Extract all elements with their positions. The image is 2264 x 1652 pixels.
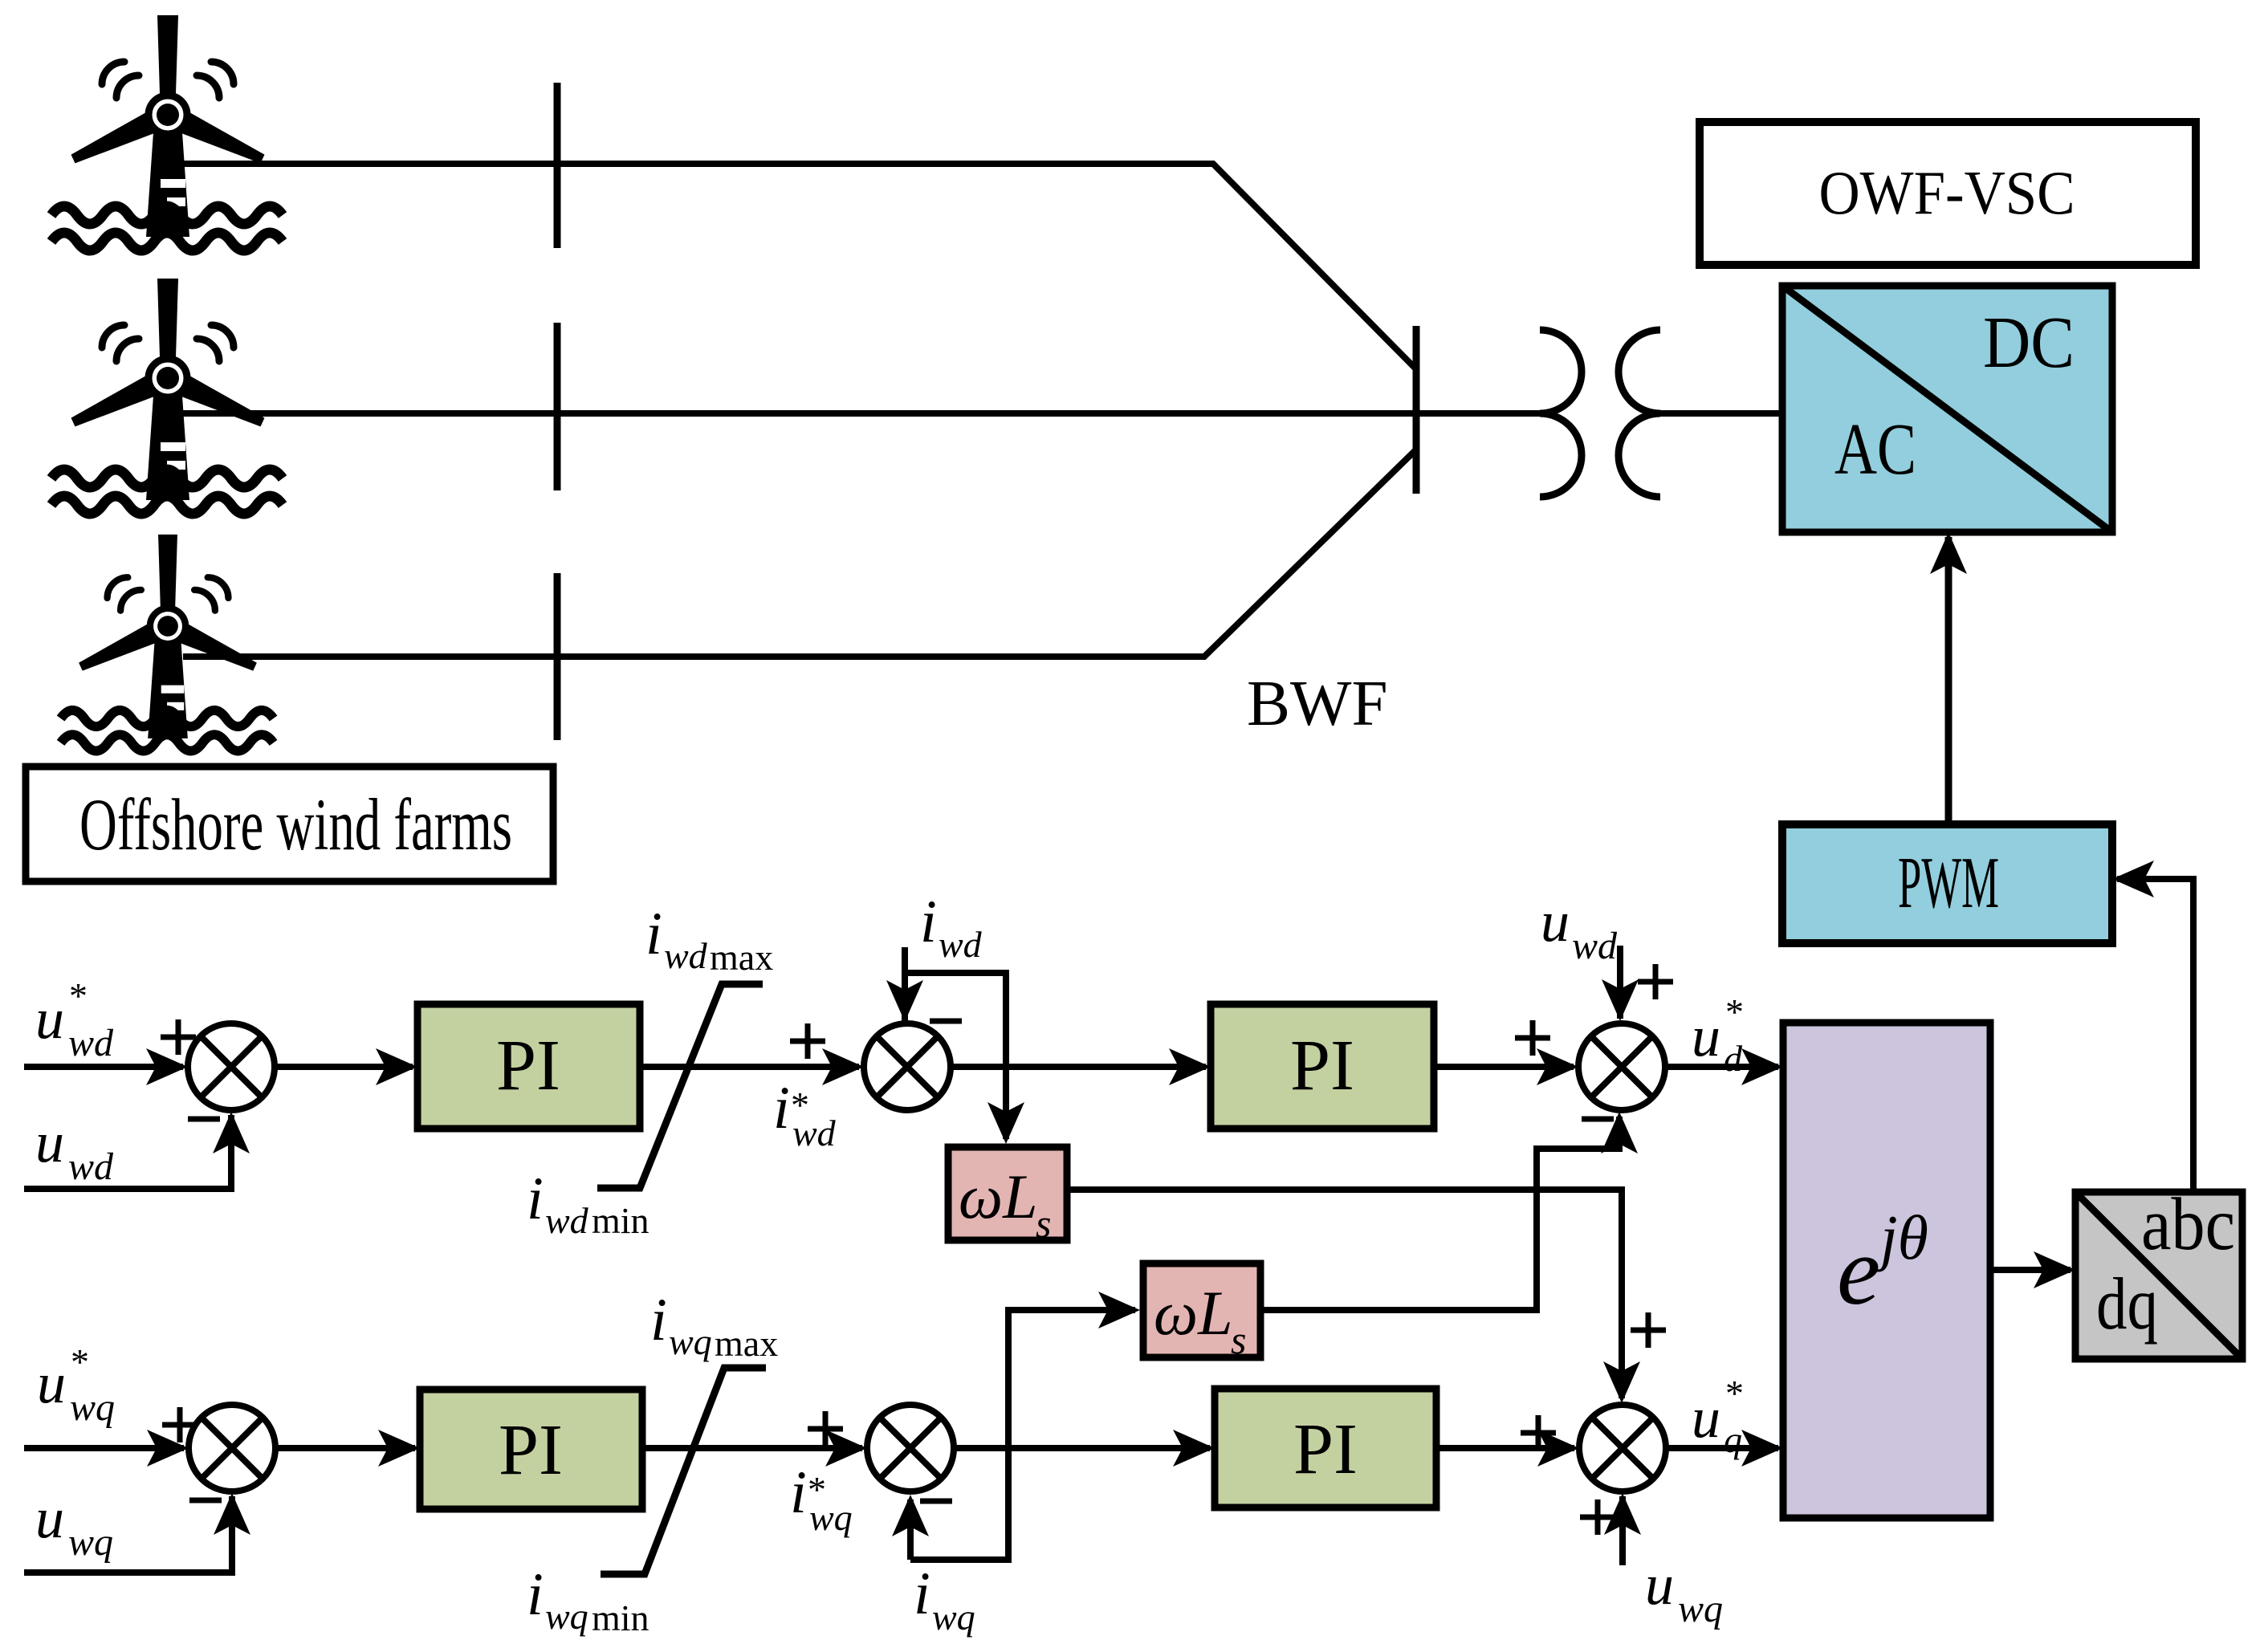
summing junction S1 — [188, 1023, 275, 1110]
summing junction S4 — [189, 1405, 275, 1491]
limiter 2 — [601, 1368, 766, 1574]
svg-text:BWF: BWF — [1247, 667, 1388, 739]
transformer secondary winding — [1619, 330, 1660, 497]
svg-text:q: q — [1724, 1419, 1742, 1460]
wire iwq into S5 — [907, 1499, 914, 1560]
svg-text:u: u — [35, 987, 64, 1051]
svg-text:wd: wd — [939, 924, 983, 965]
wire iwd branch to wLs1 — [905, 973, 1006, 1139]
plus at S3 top — [1638, 964, 1673, 999]
wire iwd into S2 — [902, 947, 908, 1023]
abc-dq block — [2075, 1183, 2242, 1359]
wire S2 to PI2 — [947, 1064, 1206, 1070]
label iwd — [920, 889, 983, 965]
label iwq — [914, 1560, 975, 1638]
svg-text:PI: PI — [496, 1026, 560, 1105]
svg-text:AC: AC — [1834, 409, 1916, 490]
svg-text:PI: PI — [1290, 1026, 1354, 1105]
svg-text:jθ: jθ — [1873, 1202, 1928, 1272]
wind turbine WT3 — [61, 535, 274, 751]
summing junction S6 — [1579, 1405, 1666, 1491]
svg-text:u: u — [35, 1110, 64, 1174]
minus at S4 — [189, 1498, 222, 1503]
wire uwq* input — [24, 1445, 184, 1451]
svg-text:i: i — [645, 901, 662, 967]
svg-text:Offshore wind farms: Offshore wind farms — [79, 783, 512, 865]
plus before S3 — [1515, 1020, 1550, 1056]
svg-text:*: * — [1725, 991, 1744, 1032]
bus tick 3 — [554, 573, 561, 740]
label uwd top — [1541, 889, 1618, 967]
plus before S6 — [1521, 1415, 1556, 1451]
label uwq — [35, 1486, 113, 1564]
svg-text:wq: wq — [669, 1321, 712, 1362]
svg-text:wq: wq — [545, 1596, 588, 1637]
wLs block 1 — [948, 1147, 1067, 1246]
svg-text:max: max — [715, 1323, 778, 1364]
summing junction S3 — [1578, 1023, 1665, 1110]
svg-text:min: min — [592, 1200, 649, 1241]
wire wLs2 to S3 — [1260, 1117, 1619, 1310]
svg-text:s: s — [1231, 1317, 1246, 1362]
minus at S2 — [930, 1019, 962, 1024]
label uwq bottom — [1645, 1552, 1723, 1630]
svg-text:wd: wd — [664, 935, 708, 976]
svg-text:*: * — [69, 975, 88, 1016]
svg-text:max: max — [710, 937, 773, 978]
svg-text:wd: wd — [68, 1145, 114, 1188]
svg-text:u: u — [37, 1351, 66, 1415]
wind turbine WT2 — [51, 279, 283, 514]
svg-text:i: i — [790, 1459, 807, 1526]
ejtheta block — [1783, 1023, 1990, 1518]
svg-text:wq: wq — [70, 1386, 115, 1429]
wire S6 to ejth — [1663, 1445, 1778, 1451]
wire uwd feedback — [24, 1115, 231, 1189]
converter diagonal — [1782, 286, 2112, 532]
svg-text:dq: dq — [2096, 1263, 2158, 1345]
svg-text:ωL: ωL — [1154, 1278, 1232, 1348]
AC-DC converter block — [1782, 286, 2112, 532]
label iwd min — [527, 1166, 649, 1241]
label u*wd — [35, 975, 114, 1064]
wLs block 2 — [1143, 1263, 1260, 1362]
svg-text:d: d — [1724, 1038, 1743, 1079]
transformer primary winding — [1540, 330, 1582, 497]
wire S5 to PI4 — [951, 1445, 1210, 1451]
wire uwd into S3 — [1617, 946, 1623, 1019]
svg-text:ωL: ωL — [959, 1162, 1037, 1231]
wire PI4 to S6 — [1436, 1445, 1574, 1451]
svg-text:PI: PI — [1293, 1410, 1358, 1489]
OWF-VSC box — [1700, 122, 2196, 265]
bus tick 2 — [554, 323, 561, 490]
wire PI1 to S2 — [640, 1064, 859, 1070]
PWM block — [1782, 824, 2112, 943]
BWF bus bar — [1413, 326, 1420, 494]
wire S4 to PI3 — [272, 1445, 415, 1451]
label i*wq — [790, 1459, 853, 1538]
svg-text:s: s — [1036, 1201, 1051, 1246]
label iwq max — [650, 1287, 778, 1364]
plus at S6 top — [1631, 1312, 1666, 1348]
svg-text:i: i — [773, 1075, 790, 1141]
wire abc-dq to PWM — [2117, 879, 2193, 1192]
label i*wd — [773, 1075, 837, 1154]
wire PWM to converter — [1945, 537, 1952, 824]
wind turbine WT1 — [51, 15, 283, 250]
minus at S5 — [920, 1499, 952, 1504]
PI block PI4 — [1215, 1389, 1436, 1508]
svg-text:*: * — [1725, 1373, 1744, 1414]
svg-text:i: i — [527, 1166, 544, 1232]
wire uwq into S6 — [1619, 1496, 1626, 1565]
svg-text:e: e — [1837, 1217, 1880, 1325]
wire wLs1 to S6 — [1067, 1190, 1622, 1398]
svg-text:OWF-VSC: OWF-VSC — [1819, 158, 2075, 227]
svg-text:wd: wd — [792, 1113, 837, 1154]
limiter 1 — [597, 984, 763, 1188]
wire transformer to AC-DC converter — [1660, 410, 1782, 417]
plus at S4 — [162, 1407, 197, 1442]
svg-text:u: u — [1692, 1385, 1720, 1450]
svg-text:wd: wd — [545, 1200, 589, 1241]
label uwd — [35, 1110, 114, 1188]
svg-text:abc: abc — [2141, 1183, 2235, 1266]
svg-text:i: i — [650, 1287, 667, 1353]
summing junction S2 — [864, 1023, 951, 1110]
svg-text:u: u — [1692, 1004, 1720, 1068]
minus at S3 bottom — [1582, 1117, 1614, 1122]
svg-text:*: * — [71, 1341, 89, 1382]
svg-text:wq: wq — [1678, 1588, 1723, 1630]
svg-text:i: i — [527, 1561, 544, 1628]
svg-text:wd: wd — [1572, 925, 1618, 967]
plus before S5 — [808, 1411, 843, 1447]
wire PI3 to S5 — [642, 1445, 862, 1451]
wire uwd* input — [24, 1064, 183, 1070]
label u*q — [1692, 1373, 1744, 1460]
wire PI2 to S3 — [1434, 1064, 1574, 1070]
wire ejth to abc-dq — [1990, 1267, 2071, 1273]
svg-text:u: u — [1541, 889, 1570, 954]
wire S3 to ejth — [1662, 1064, 1778, 1070]
bus tick 1 — [554, 83, 561, 248]
PI block PI3 — [420, 1390, 642, 1509]
svg-text:i: i — [914, 1560, 930, 1627]
svg-text:wq: wq — [932, 1597, 975, 1638]
svg-text:wq: wq — [68, 1521, 113, 1564]
label u*d — [1692, 991, 1744, 1079]
wire uwq feedback — [24, 1496, 232, 1573]
minus at S1 — [188, 1117, 220, 1122]
feeder wire 1 — [183, 164, 1416, 369]
svg-text:i: i — [920, 889, 937, 955]
svg-text:u: u — [1645, 1552, 1674, 1617]
label u*wq — [37, 1341, 115, 1429]
wire iwq branch to wLs2 — [910, 1310, 1135, 1560]
svg-text:u: u — [35, 1486, 64, 1550]
svg-text:DC: DC — [1983, 302, 2075, 383]
wire S1 to PI1 — [271, 1064, 413, 1070]
summing junction S5 — [867, 1405, 954, 1491]
feeder wire 3 — [183, 450, 1416, 657]
svg-text:wq: wq — [809, 1497, 853, 1538]
label iwd max — [645, 901, 773, 978]
label iwq min — [527, 1561, 649, 1638]
svg-text:wd: wd — [68, 1022, 114, 1064]
Offshore wind farms box — [26, 767, 553, 881]
svg-text:PI: PI — [499, 1410, 563, 1490]
svg-text:PWM: PWM — [1898, 842, 1999, 923]
plus before S2 — [790, 1023, 825, 1059]
feeder wire 2 — [183, 410, 1540, 417]
svg-text:min: min — [592, 1597, 649, 1638]
PI block PI2 — [1211, 1004, 1434, 1129]
PI block PI1 — [417, 1004, 640, 1129]
plus at S6 bottom — [1580, 1499, 1615, 1535]
plus at S1 — [161, 1019, 196, 1055]
